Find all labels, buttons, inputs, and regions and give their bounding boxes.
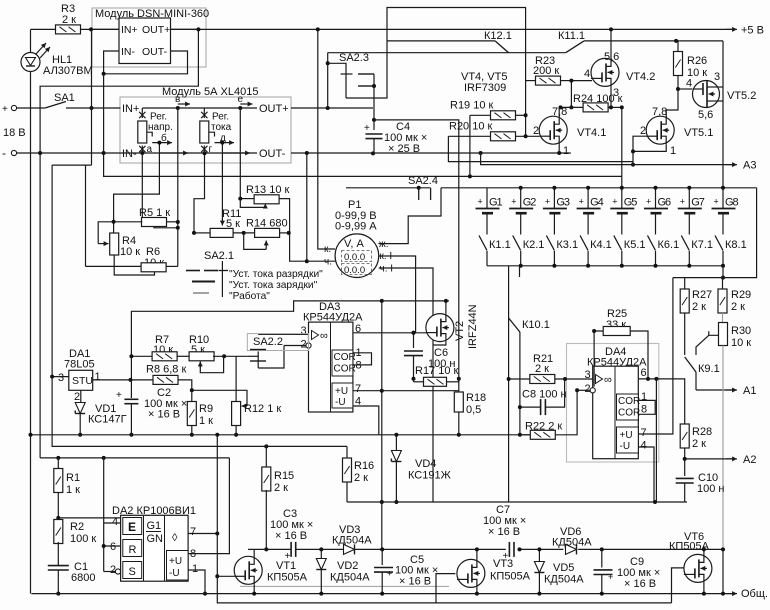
svg-text:2: 2: [640, 125, 646, 137]
svg-text:КС147Г: КС147Г: [88, 414, 127, 426]
svg-text:78L05: 78L05: [64, 359, 95, 371]
svg-text:R20 10 к: R20 10 к: [449, 121, 493, 133]
svg-text:IN-: IN-: [121, 46, 136, 58]
svg-text:е: е: [238, 94, 244, 105]
svg-text:STU: STU: [72, 375, 93, 387]
svg-text:100 к: 100 к: [70, 533, 96, 545]
svg-text:R12 1 к: R12 1 к: [244, 403, 281, 415]
svg-text:3: 3: [564, 197, 570, 209]
svg-text:+: +: [646, 197, 651, 207]
svg-text:R13 10 к: R13 10 к: [246, 184, 290, 196]
svg-text:+: +: [545, 197, 550, 207]
svg-text:IN+: IN+: [122, 103, 139, 115]
svg-text:ч.: ч.: [324, 257, 332, 268]
svg-text:S: S: [129, 566, 136, 578]
svg-text:-U: -U: [169, 568, 180, 579]
svg-text:1: 1: [497, 197, 503, 209]
svg-text:4: 4: [598, 197, 604, 209]
svg-text:К10.1: К10.1: [522, 319, 550, 331]
svg-text:К1.1: К1.1: [489, 239, 511, 251]
svg-text:R27: R27: [692, 289, 712, 301]
svg-text:IRF7309: IRF7309: [464, 82, 506, 94]
svg-text:2: 2: [530, 197, 536, 209]
svg-text:∞: ∞: [320, 330, 328, 342]
svg-text:10 к: 10 к: [731, 337, 751, 349]
svg-text:R26: R26: [687, 55, 707, 67]
svg-text:2 к: 2 к: [535, 363, 549, 375]
svg-text:в: в: [175, 94, 180, 105]
svg-text:К2.1: К2.1: [523, 239, 545, 251]
svg-text:"Работа": "Работа": [229, 290, 270, 302]
svg-text:VD5: VD5: [553, 562, 574, 574]
svg-text:г: г: [209, 144, 213, 155]
svg-text:2: 2: [74, 391, 80, 403]
svg-text:6: 6: [641, 367, 647, 379]
svg-text:Рег.: Рег.: [212, 112, 229, 123]
svg-text:5: 5: [631, 197, 637, 209]
svg-text:-: -: [2, 146, 6, 160]
svg-text:"Уст. тока разрядки": "Уст. тока разрядки": [229, 269, 323, 280]
svg-text:КП505А: КП505А: [267, 572, 308, 584]
svg-text:+U: +U: [620, 430, 633, 441]
svg-text:VT2: VT2: [454, 321, 466, 341]
svg-text:+: +: [285, 551, 291, 562]
svg-text:2 к: 2 к: [62, 14, 76, 26]
svg-text:1 к: 1 к: [66, 484, 80, 496]
svg-text:КД504А: КД504А: [332, 535, 372, 547]
svg-text:4: 4: [641, 440, 647, 452]
svg-text:IRFZ44N: IRFZ44N: [467, 304, 479, 349]
svg-text:7: 7: [190, 526, 196, 538]
svg-text:+: +: [387, 569, 392, 579]
svg-text:1: 1: [95, 371, 101, 383]
svg-text:+: +: [680, 197, 685, 207]
svg-text:COR: COR: [618, 408, 640, 419]
svg-text:К4.1: К4.1: [590, 239, 612, 251]
svg-text:SA2.2: SA2.2: [253, 336, 283, 348]
svg-text:К11.1: К11.1: [558, 30, 585, 42]
svg-text:R1: R1: [66, 472, 80, 484]
svg-text:+: +: [116, 390, 122, 401]
svg-text:× 25 В: × 25 В: [388, 143, 420, 155]
svg-text:2 к: 2 к: [731, 301, 745, 313]
svg-text:7,8: 7,8: [652, 106, 667, 118]
svg-text:6: 6: [665, 197, 671, 209]
svg-text:2 к: 2 к: [274, 482, 288, 494]
svg-text:6: 6: [110, 541, 116, 553]
svg-text:тока: тока: [211, 122, 232, 133]
svg-text:АЛ307ВМ: АЛ307ВМ: [43, 65, 93, 77]
svg-text:А3: А3: [743, 160, 756, 172]
svg-text:1: 1: [192, 563, 198, 575]
svg-text:R8 6,8 к: R8 6,8 к: [146, 364, 186, 376]
svg-text:OUT+: OUT+: [142, 24, 170, 36]
svg-text:× 16 В: × 16 В: [399, 576, 431, 588]
svg-text:R18: R18: [466, 392, 486, 404]
svg-text:1: 1: [670, 145, 676, 157]
svg-text:R14 680: R14 680: [246, 218, 288, 230]
svg-text:К7.1: К7.1: [691, 239, 713, 251]
svg-text:R15: R15: [274, 470, 294, 482]
svg-text:А1: А1: [743, 385, 756, 397]
svg-text:0-9,99 А: 0-9,99 А: [335, 221, 377, 233]
svg-text:2 к: 2 к: [692, 438, 706, 450]
svg-text:IN-: IN-: [122, 148, 137, 160]
svg-text:0,5: 0,5: [466, 404, 481, 416]
svg-text:VT5.1: VT5.1: [684, 127, 713, 139]
svg-text:R29: R29: [731, 289, 751, 301]
svg-text:КД504А: КД504А: [544, 574, 584, 586]
svg-text:10 к: 10 к: [120, 246, 140, 258]
svg-text:4: 4: [112, 516, 118, 528]
svg-text:1: 1: [563, 145, 569, 157]
svg-text:6800: 6800: [71, 572, 95, 584]
svg-text:К12.1: К12.1: [484, 30, 512, 42]
svg-text:7: 7: [699, 197, 705, 209]
svg-text:3: 3: [301, 325, 307, 337]
svg-text:4: 4: [584, 68, 590, 80]
svg-text:V, А: V, А: [344, 238, 364, 250]
svg-text:2: 2: [533, 125, 539, 137]
svg-text:С8 100 н: С8 100 н: [522, 389, 567, 401]
svg-text:R16: R16: [354, 460, 374, 472]
svg-text:3: 3: [58, 372, 64, 384]
svg-text:3: 3: [613, 87, 619, 99]
svg-text:КС191Ж: КС191Ж: [408, 470, 451, 482]
svg-text:-U: -U: [335, 397, 346, 408]
svg-text:R2: R2: [70, 521, 84, 533]
svg-text:× 16 В: × 16 В: [275, 530, 307, 542]
svg-text:+: +: [478, 197, 483, 207]
svg-text:Общ.: Общ.: [741, 588, 768, 600]
svg-text:VD2: VD2: [337, 560, 358, 572]
svg-text:7: 7: [641, 427, 647, 439]
svg-text:+U: +U: [335, 386, 348, 397]
svg-text:× 16 В: × 16 В: [148, 409, 180, 421]
svg-text:+: +: [579, 197, 584, 207]
svg-text:+: +: [714, 197, 719, 207]
svg-text:Рег.: Рег.: [150, 112, 167, 123]
svg-text:COR: COR: [334, 352, 356, 363]
svg-text:OUT-: OUT-: [142, 46, 168, 58]
svg-text:ж.: ж.: [379, 239, 388, 250]
svg-text:× 16 В: × 16 В: [624, 578, 656, 590]
svg-text:+: +: [503, 551, 509, 562]
svg-text:× 16 В: × 16 В: [488, 526, 520, 538]
svg-text:КД504А: КД504А: [330, 572, 370, 584]
svg-text:3: 3: [714, 71, 720, 83]
svg-text:ч. I: ч. I: [380, 264, 394, 275]
svg-text:2 к: 2 к: [354, 472, 368, 484]
svg-text:VT4.2: VT4.2: [626, 71, 655, 83]
svg-text:-U: -U: [620, 441, 631, 452]
svg-text:КД504А: КД504А: [552, 537, 592, 549]
svg-text:∞: ∞: [604, 374, 612, 386]
svg-text:+: +: [364, 123, 370, 134]
svg-text:SA2.4: SA2.4: [408, 175, 438, 187]
svg-text:2: 2: [585, 383, 591, 395]
svg-text:4: 4: [686, 78, 692, 90]
svg-text:+: +: [2, 104, 8, 115]
svg-text:200 к: 200 к: [533, 65, 559, 77]
svg-text:G1: G1: [147, 520, 162, 532]
svg-text:R9: R9: [199, 403, 213, 415]
svg-text:SA2.3: SA2.3: [339, 52, 369, 64]
svg-text:К9.1: К9.1: [698, 363, 720, 375]
svg-text:2: 2: [110, 564, 116, 576]
svg-text:3: 3: [585, 369, 591, 381]
svg-text:GN: GN: [147, 533, 164, 545]
svg-text:18 В: 18 В: [3, 127, 26, 139]
svg-text:7: 7: [355, 383, 361, 395]
svg-text:VT5.2: VT5.2: [727, 90, 756, 102]
svg-text:К3.1: К3.1: [556, 239, 578, 251]
svg-text:К6.1: К6.1: [658, 239, 680, 251]
svg-text:5,6: 5,6: [604, 51, 619, 63]
svg-text:E: E: [128, 520, 136, 534]
svg-text:SA1: SA1: [54, 92, 75, 104]
svg-text:OUT-: OUT-: [259, 148, 286, 160]
svg-text:0.0.0: 0.0.0: [344, 252, 365, 263]
svg-text:+: +: [608, 572, 613, 582]
svg-text:+U: +U: [169, 556, 182, 567]
svg-text:а: а: [147, 144, 153, 155]
svg-text:К5.1: К5.1: [624, 239, 646, 251]
svg-text:5,6: 5,6: [698, 109, 713, 121]
svg-text:IN+: IN+: [121, 24, 138, 36]
svg-text:+: +: [511, 197, 516, 207]
svg-text:◊: ◊: [172, 532, 178, 544]
svg-text:0.0.0: 0.0.0: [344, 265, 365, 276]
svg-text:R: R: [129, 544, 137, 556]
svg-text:COR: COR: [618, 396, 640, 407]
svg-text:100 н: 100 н: [697, 483, 724, 495]
svg-text:+5 В: +5 В: [741, 25, 764, 37]
svg-text:2 к: 2 к: [692, 301, 706, 313]
svg-text:+: +: [612, 197, 617, 207]
svg-text:COR: COR: [334, 364, 356, 375]
svg-text:VT4.1: VT4.1: [577, 127, 606, 139]
svg-text:А2: А2: [743, 454, 756, 466]
svg-text:R19 10 к: R19 10 к: [450, 100, 494, 112]
svg-text:OUT+: OUT+: [259, 103, 289, 115]
svg-text:"Уст. тока зарядки": "Уст. тока зарядки": [229, 280, 318, 291]
svg-text:R30: R30: [731, 325, 751, 337]
svg-text:К8.1: К8.1: [725, 239, 747, 251]
svg-text:КП505А: КП505А: [490, 571, 531, 583]
svg-text:R28: R28: [692, 426, 712, 438]
svg-text:SA2.1: SA2.1: [204, 250, 234, 262]
svg-text:8: 8: [733, 197, 739, 209]
svg-text:1: 1: [641, 391, 647, 403]
svg-text:1 к: 1 к: [199, 415, 213, 427]
svg-text:напр.: напр.: [148, 122, 173, 133]
svg-text:VD4: VD4: [415, 458, 436, 470]
svg-text:R17 10 к: R17 10 к: [415, 365, 459, 377]
